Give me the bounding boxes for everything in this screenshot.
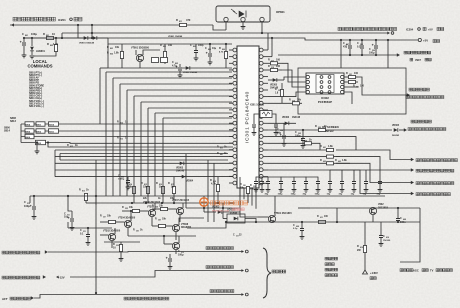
svg-text:100: 100 <box>276 59 281 62</box>
svg-text:10k: 10k <box>168 44 173 47</box>
wire <box>114 228 116 234</box>
wire y78 into IC <box>113 77 232 79</box>
wire <box>164 243 172 245</box>
wire <box>336 208 338 222</box>
svg-text:C: C <box>190 44 192 47</box>
label to tuner (Chinese) <box>272 270 286 273</box>
svg-text:R: R <box>346 72 348 75</box>
wire <box>24 37 92 39</box>
transistor VT309 <box>172 242 179 249</box>
wire line sync input <box>296 129 392 131</box>
wire <box>55 38 57 44</box>
wire <box>284 77 306 80</box>
svg-text:804: 804 <box>208 48 211 51</box>
svg-text:R: R <box>268 59 270 62</box>
LED LED801 <box>30 47 34 51</box>
wire bus left vertical <box>54 150 56 177</box>
resistor R601 1.8k <box>327 148 334 151</box>
svg-text:S814 VOL(−): S814 VOL(−) <box>29 105 44 108</box>
wire <box>239 196 241 203</box>
resistor R814 22k <box>132 187 135 194</box>
svg-text:100p: 100p <box>278 194 284 196</box>
capacitor C302 22p <box>252 125 256 127</box>
resistor R603 1.8k <box>327 162 334 165</box>
terminal +5V <box>418 38 421 41</box>
svg-text:337: 337 <box>103 217 106 219</box>
wire tuner line 1 <box>48 251 242 254</box>
capacitor C319 <box>261 177 263 181</box>
svg-text:IC301 PCA84C640: IC301 PCA84C640 <box>245 91 251 143</box>
wire key matrix row 1 <box>21 123 233 125</box>
capacitor C604 100p <box>317 177 319 181</box>
svg-text:C: C <box>383 235 385 238</box>
resistor R604 1k <box>305 142 312 145</box>
capacitor C602 100p <box>293 177 295 181</box>
svg-text:311: 311 <box>83 231 86 233</box>
svg-text:R: R <box>315 125 317 128</box>
wire vertical x120 <box>119 84 121 196</box>
wire blue output <box>336 157 411 170</box>
svg-text:R: R <box>47 42 49 46</box>
IC IC302 PCF8581P <box>306 73 344 94</box>
wire <box>130 211 132 221</box>
wire right drop <box>400 208 420 262</box>
label field tuning voltage output (Chinese) <box>206 247 233 250</box>
svg-text:30p: 30p <box>265 194 269 196</box>
label blue OSD signal output (Chinese) <box>416 169 454 172</box>
label line tuning voltage output (Chinese) <box>206 266 233 269</box>
diode box VD304 <box>227 214 245 223</box>
wire <box>135 50 137 55</box>
wire y68 rail <box>108 67 160 69</box>
svg-text:2SC1815: 2SC1815 <box>378 207 389 210</box>
wire <box>182 203 184 208</box>
svg-text:321: 321 <box>349 74 352 76</box>
wire <box>238 195 240 197</box>
resistor R330 10k <box>246 187 249 194</box>
svg-text:803: 803 <box>110 48 113 50</box>
wire <box>282 63 306 82</box>
pin 2 <box>241 17 245 21</box>
resistor R327 <box>159 224 166 227</box>
svg-text:318: 318 <box>271 67 274 69</box>
capacitor C609 33p <box>379 170 381 181</box>
capacitor C605 15p <box>329 170 331 181</box>
wire right mid rails <box>268 137 356 150</box>
svg-text:602: 602 <box>323 161 326 163</box>
label band select output (Chinese) <box>2 276 40 279</box>
label red OSD signal output (Chinese) <box>416 193 450 196</box>
label volume-control input (Chinese) <box>13 17 55 21</box>
switch S810 <box>49 122 59 126</box>
svg-text:15p: 15p <box>351 194 355 196</box>
wire matrix rows to IC <box>48 143 233 148</box>
wire y102 into IC <box>141 101 232 103</box>
svg-text:100μ: 100μ <box>31 32 37 36</box>
svg-text:601: 601 <box>323 147 326 149</box>
svg-text:R: R <box>320 145 322 148</box>
wire <box>179 215 181 222</box>
svg-text:100μ: 100μ <box>369 52 375 55</box>
wire rail drop x341 <box>340 40 342 68</box>
wire vertical x127 <box>126 90 128 196</box>
wire y96 into IC <box>134 95 232 97</box>
wire <box>223 218 227 220</box>
svg-text:V907: V907 <box>415 59 421 62</box>
wire y228 <box>68 227 112 229</box>
switch S805 <box>25 129 34 133</box>
svg-text:47μ: 47μ <box>343 46 348 49</box>
svg-text:1N-500: 1N-500 <box>383 240 391 242</box>
svg-text:S802: S802 <box>36 131 42 133</box>
wire <box>368 207 370 209</box>
wire y68b <box>160 67 232 69</box>
svg-text:813: 813 <box>82 191 85 193</box>
wire <box>154 203 156 210</box>
svg-text:338: 338 <box>158 220 161 222</box>
svg-text:VT306 2SC1815: VT306 2SC1815 <box>143 202 161 204</box>
red watermark <box>200 198 208 206</box>
svg-text:15p: 15p <box>327 194 331 196</box>
wire to remote rx pin <box>213 25 226 30</box>
ground <box>35 151 40 154</box>
diode VD306 1N4148 <box>285 121 289 125</box>
wire <box>34 52 56 57</box>
svg-text:www.dzsc.com: www.dzsc.com <box>212 210 229 213</box>
svg-text:R: R <box>117 137 119 140</box>
svg-text:R: R <box>289 99 291 102</box>
svg-text:IC201: IC201 <box>58 18 66 22</box>
svg-text:610: 610 <box>386 237 389 239</box>
svg-text:100p: 100p <box>315 194 321 196</box>
wire y208 rail <box>310 207 420 209</box>
wire matrix left rail <box>20 124 22 143</box>
wire bus into IC301 left pins <box>55 149 233 151</box>
svg-text:812: 812 <box>120 123 123 125</box>
label mode signals block (Chinese) <box>325 257 338 260</box>
wire vertical bus left of IC <box>99 68 101 124</box>
svg-text:316: 316 <box>278 90 281 92</box>
ground <box>241 27 246 30</box>
svg-text:R: R <box>301 139 303 142</box>
wire <box>268 129 296 131</box>
wire <box>175 232 177 240</box>
wire vertical x134 <box>133 96 135 196</box>
wire <box>68 196 72 211</box>
wire vertical x214 <box>213 163 215 222</box>
svg-text:811: 811 <box>179 21 182 23</box>
curly brace to tuner <box>263 248 271 298</box>
terminal +145V supply <box>363 270 368 274</box>
label brightness control output (Chinese) <box>2 251 40 254</box>
capacitor C606 33p <box>341 170 343 181</box>
wire <box>31 51 33 55</box>
wire <box>67 222 69 228</box>
svg-text:813: 813 <box>120 139 123 141</box>
wire IC302 right pins <box>344 76 358 78</box>
resistor R320 1k <box>319 128 326 131</box>
svg-text:+12V: +12V <box>58 276 65 280</box>
wire <box>127 228 129 236</box>
wire <box>91 25 93 38</box>
svg-text:10p: 10p <box>363 194 367 196</box>
svg-text:R: R <box>79 189 81 192</box>
wire <box>59 154 61 161</box>
svg-text:820: 820 <box>220 154 223 156</box>
svg-text:R: R <box>320 159 322 162</box>
svg-text:VD801 1N4148: VD801 1N4148 <box>79 42 95 45</box>
wire vertical x186 <box>185 154 187 208</box>
diode VD802 1N4148 <box>186 66 190 70</box>
svg-text:S805: S805 <box>25 131 31 133</box>
wire IC301 right pin stubs <box>263 49 268 51</box>
capacitor C318 <box>255 177 257 181</box>
svg-text:801: 801 <box>46 35 49 37</box>
IC301 left pins <box>233 48 237 52</box>
wire <box>222 203 224 219</box>
wire y236 rail <box>128 235 196 237</box>
label green OSD signal output (Chinese) <box>416 182 454 185</box>
wire <box>111 241 113 248</box>
switch S803 <box>36 140 46 144</box>
svg-text:PCF8581P: PCF8581P <box>318 100 332 104</box>
svg-text:324: 324 <box>155 206 158 209</box>
wire y222 main rail <box>226 221 420 223</box>
resistor R802 1.2k <box>54 45 57 52</box>
label 5V control output (Chinese) <box>338 27 397 30</box>
wire y244 short <box>163 236 165 244</box>
resistor R326 <box>109 220 116 223</box>
wire <box>225 22 227 30</box>
wire <box>100 234 108 236</box>
wire upper-mid rail y44 <box>108 38 232 44</box>
wire <box>242 22 244 26</box>
svg-text:603: 603 <box>338 161 341 163</box>
wire <box>272 114 276 124</box>
svg-text:339: 339 <box>136 231 139 233</box>
resistor R318 100 <box>268 69 282 71</box>
wire <box>261 22 263 33</box>
svg-text:VD306: VD306 <box>282 117 290 119</box>
wire green output <box>336 163 411 182</box>
wire <box>254 114 260 124</box>
svg-text:10k: 10k <box>115 46 120 49</box>
capacitor C600 30p <box>267 177 269 181</box>
svg-text:C: C <box>293 224 295 227</box>
svg-text:323: 323 <box>125 208 128 210</box>
IC IC301 PCA84C640 microcontroller <box>237 46 259 188</box>
svg-text:100μ: 100μ <box>178 254 184 257</box>
wire <box>258 216 268 218</box>
svg-text:S804: S804 <box>25 123 31 126</box>
svg-text:R: R <box>117 121 119 124</box>
wire key matrix row 2 <box>21 130 233 132</box>
svg-text:VT801 3DG8050: VT801 3DG8050 <box>131 47 150 50</box>
svg-text:+5V: +5V <box>428 28 433 32</box>
wire vertical x208 <box>207 160 209 222</box>
wire <box>268 169 350 171</box>
wire <box>372 215 374 222</box>
capacitor C608 10p <box>365 170 367 181</box>
wire y72 into IC <box>106 71 232 73</box>
wire <box>31 38 33 46</box>
svg-text:10μ: 10μ <box>277 132 282 135</box>
svg-text:R: R <box>353 85 355 88</box>
label line sync input (Chinese) <box>411 120 431 123</box>
svg-text:805: 805 <box>163 46 166 48</box>
ground <box>22 55 27 58</box>
wire y90 into IC <box>127 89 232 91</box>
resistor R316 1.8 <box>280 90 283 97</box>
svg-text:R: R <box>357 245 359 248</box>
svg-text:TV: TV <box>430 269 434 273</box>
wire <box>268 122 296 124</box>
svg-text:320: 320 <box>318 127 321 129</box>
svg-text:604: 604 <box>304 140 307 143</box>
wire rail y39 <box>24 38 418 40</box>
wire <box>100 67 108 69</box>
switch S806 <box>25 134 34 138</box>
svg-text:332: 332 <box>253 186 256 188</box>
svg-text:S811: S811 <box>49 131 55 133</box>
resistor R602 1.8k <box>327 155 334 158</box>
label RF tuning output, to tuner (Chinese) <box>124 297 169 300</box>
svg-text:C: C <box>400 217 402 220</box>
wire field pulse input <box>358 77 407 95</box>
OSD section boundary box <box>298 68 406 114</box>
wire vertical x148 <box>147 108 149 196</box>
svg-text:R: R <box>160 44 162 47</box>
wire <box>268 92 306 97</box>
wire <box>282 70 306 87</box>
svg-text:VT601 2SC1815: VT601 2SC1815 <box>274 212 292 215</box>
svg-text:100p: 100p <box>198 44 204 47</box>
wire y242 <box>104 241 140 243</box>
junction <box>91 24 93 26</box>
label blanking signal output (Chinese) <box>416 159 457 162</box>
diode VD305 1N4148 <box>268 79 284 81</box>
wire <box>247 194 249 204</box>
wire <box>204 211 216 213</box>
svg-text:R: R <box>219 47 221 50</box>
svg-text:803: 803 <box>193 46 196 48</box>
capacitor C303 22p <box>274 125 278 127</box>
wire <box>240 212 258 217</box>
wire y118 into IC <box>163 117 232 119</box>
svg-text:100p: 100p <box>291 194 297 196</box>
svg-text:+145V: +145V <box>370 271 378 275</box>
crystal X301 10MHz <box>263 116 268 118</box>
svg-text:0.1μ: 0.1μ <box>293 228 298 230</box>
svg-text:1N4148: 1N4148 <box>176 170 185 173</box>
wire <box>151 217 153 226</box>
svg-text:22k: 22k <box>128 186 133 189</box>
wire red output <box>350 170 411 194</box>
svg-text:VD801 1N4148: VD801 1N4148 <box>168 35 183 38</box>
resistor R319 10k <box>268 102 302 104</box>
wire vertical x113 <box>112 78 114 196</box>
wire <box>281 83 283 90</box>
wire <box>245 219 256 223</box>
wire <box>262 109 265 112</box>
svg-text:AFT: AFT <box>2 297 8 301</box>
svg-text:1000p: 1000p <box>118 179 125 181</box>
resistor R811 470 <box>180 23 187 26</box>
ground <box>30 56 35 59</box>
wire <box>107 44 109 68</box>
wire <box>139 62 141 69</box>
wire y113 into IC <box>155 112 232 114</box>
svg-text:S806: S806 <box>25 137 31 139</box>
svg-text:VD804: VD804 <box>186 180 194 183</box>
svg-text:COMMANDS: COMMANDS <box>27 64 52 69</box>
svg-text:100: 100 <box>276 65 281 68</box>
svg-text:1N4148: 1N4148 <box>292 116 301 119</box>
svg-text:VD305: VD305 <box>270 85 278 87</box>
svg-text:S810: S810 <box>49 124 55 126</box>
wire from transistor cluster to right <box>298 207 310 209</box>
junction <box>55 37 57 39</box>
diode VD605 <box>394 128 398 132</box>
wire <box>203 196 205 203</box>
svg-text:VT304 3DA8050: VT304 3DA8050 <box>118 217 136 220</box>
svg-text:C: C <box>205 47 207 50</box>
wire vertical x163 <box>162 118 164 196</box>
wire <box>61 33 63 38</box>
wire row <box>60 159 228 161</box>
svg-text:322: 322 <box>356 87 359 89</box>
wire <box>86 202 96 204</box>
wire <box>29 196 31 203</box>
svg-text:100p: 100p <box>295 135 301 138</box>
diode VD803 1N4148 <box>180 161 184 165</box>
wire <box>281 97 283 104</box>
wire row <box>60 153 228 155</box>
wire blanking output <box>336 150 411 160</box>
svg-text:VT307 2SC1815: VT307 2SC1815 <box>172 200 190 202</box>
svg-text:470: 470 <box>186 18 191 22</box>
svg-text:R: R <box>335 159 337 162</box>
svg-text:819: 819 <box>220 148 223 150</box>
svg-text:S801: S801 <box>36 124 42 126</box>
wire left rail extension <box>187 222 226 228</box>
resistor R322 100 <box>349 80 356 83</box>
svg-text:+5V: +5V <box>423 39 428 43</box>
wire <box>179 218 204 225</box>
wire left rail y196 <box>30 195 238 197</box>
photodiode symbol <box>231 9 237 14</box>
wire <box>178 236 180 243</box>
switch S802 <box>36 129 45 133</box>
wire <box>140 210 149 212</box>
svg-text:S814: S814 <box>4 129 10 132</box>
pin 3 <box>260 17 264 21</box>
wire standby control y55 <box>278 54 397 56</box>
wire <box>274 196 276 216</box>
svg-text:612: 612 <box>320 217 323 219</box>
wire +5V rail y33 <box>62 32 387 34</box>
wire bottom rail y172 <box>240 177 385 196</box>
resistor R817 1k <box>172 187 175 194</box>
svg-text:VD802 1N4148: VD802 1N4148 <box>183 71 198 74</box>
wire <box>175 250 177 254</box>
wire <box>77 25 79 38</box>
svg-text:10μ: 10μ <box>212 47 217 50</box>
svg-text:R: R <box>176 18 178 22</box>
svg-text:C: C <box>24 200 26 204</box>
resistor R818 4.7k <box>216 185 219 192</box>
svg-text:100: 100 <box>354 72 359 75</box>
